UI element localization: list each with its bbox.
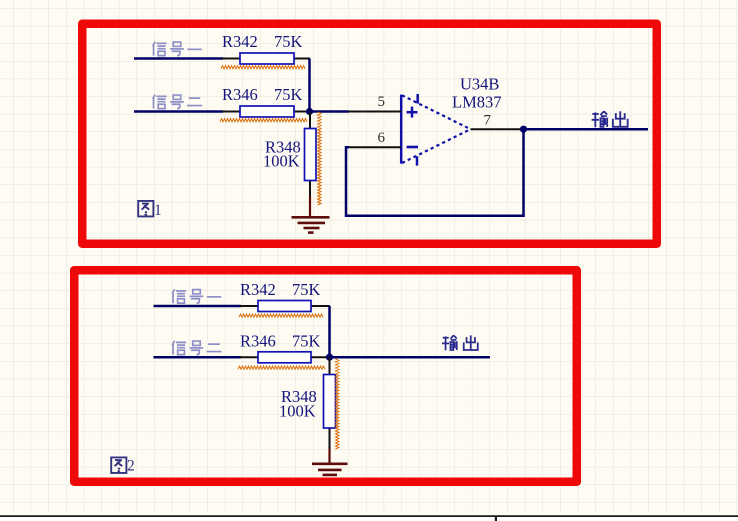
resistor R348 (fig2) bbox=[324, 357, 336, 449]
resistor R346 (fig2) bbox=[240, 352, 330, 363]
svg-text:R342: R342 bbox=[222, 32, 258, 51]
resistor R342 (fig2) bbox=[240, 301, 330, 312]
junction node A (fig1) bbox=[306, 108, 313, 115]
figure label 图1 bbox=[138, 201, 162, 219]
wire R342 to node B (fig2) bbox=[328, 306, 331, 357]
net label 输出 (fig2) bbox=[442, 335, 478, 350]
sheet bottom edge bbox=[0, 517, 738, 521]
svg-text:100K: 100K bbox=[279, 402, 316, 421]
pin 7 (op-amp out) bbox=[471, 128, 525, 130]
error marker zigzag under R346 (fig1) bbox=[220, 119, 307, 122]
resistor R346 (fig1) bbox=[222, 106, 310, 117]
svg-text:1: 1 bbox=[154, 202, 162, 219]
svg-text:75K: 75K bbox=[292, 332, 321, 351]
error marker zigzag along R348 (fig2) bbox=[336, 359, 339, 449]
wire 信号二 input (fig1) bbox=[134, 110, 223, 113]
pin 6 (op-amp -) bbox=[348, 146, 401, 148]
resistor R342 (fig1) bbox=[222, 53, 310, 64]
net label 输出 (fig1) bbox=[592, 111, 628, 127]
wire feedback loop (fig1) bbox=[346, 129, 524, 216]
wire output (fig1) bbox=[524, 128, 649, 131]
ground GND (fig1) bbox=[292, 197, 330, 233]
wire R342 to node A (fig1) bbox=[308, 59, 311, 112]
figure label 图2 bbox=[111, 457, 135, 474]
svg-text:75K: 75K bbox=[274, 85, 303, 104]
error marker zigzag under R342 (fig2) bbox=[239, 314, 323, 317]
wire 信号一 input (fig1) bbox=[134, 57, 223, 60]
error marker zigzag along R348 (fig1) bbox=[318, 112, 321, 205]
svg-text:6: 6 bbox=[378, 130, 386, 146]
wire 信号一 input (fig2) bbox=[154, 305, 242, 308]
svg-text:75K: 75K bbox=[274, 32, 303, 51]
svg-text:R342: R342 bbox=[240, 280, 276, 299]
wire 信号二 input (fig2) bbox=[154, 356, 242, 359]
highlight box 图1 bbox=[82, 24, 657, 244]
wire node A to pin5 (fig1) bbox=[310, 110, 350, 113]
svg-text:100K: 100K bbox=[263, 152, 300, 171]
svg-text:5: 5 bbox=[378, 94, 386, 110]
error marker zigzag under R346 (fig2) bbox=[238, 366, 325, 369]
net label 信号二 (fig2) bbox=[172, 341, 221, 355]
net label 信号一 (fig2) bbox=[172, 289, 221, 303]
resistor R348 (fig1) bbox=[305, 112, 317, 198]
svg-text:7: 7 bbox=[484, 113, 492, 129]
op-amp U34B (fig1) bbox=[401, 94, 470, 166]
net label 信号一 (fig1) bbox=[153, 42, 202, 56]
junction output node (fig1) bbox=[520, 126, 527, 133]
highlight box 图2 bbox=[74, 270, 577, 482]
svg-text:R346: R346 bbox=[222, 85, 258, 104]
wire output (fig2) bbox=[330, 356, 491, 359]
error marker zigzag under R342 (fig1) bbox=[221, 66, 305, 69]
svg-text:2: 2 bbox=[127, 458, 135, 475]
net label 信号二 (fig1) bbox=[153, 95, 202, 109]
ground GND (fig2) bbox=[312, 449, 348, 475]
svg-text:U34B: U34B bbox=[460, 75, 499, 94]
svg-text:LM837: LM837 bbox=[452, 93, 502, 112]
svg-text:R346: R346 bbox=[240, 332, 276, 351]
junction node B (fig2) bbox=[326, 354, 333, 361]
svg-text:75K: 75K bbox=[292, 280, 321, 299]
pin 5 (op-amp +) bbox=[348, 111, 401, 113]
